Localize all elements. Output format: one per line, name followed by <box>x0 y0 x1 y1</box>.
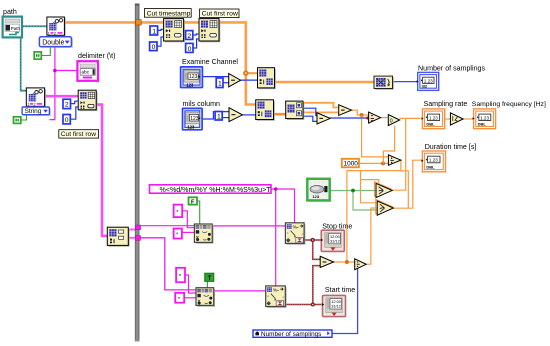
wire: I3 blue output 2 to S2 bottom input <box>303 116 317 121</box>
Index Array I4 <box>107 227 129 247</box>
flat sequence structure left border <box>135 4 140 342</box>
indicator Number of samplings (I32) <box>417 72 439 90</box>
wire: 1000 to E bottom input <box>359 162 389 164</box>
wire: const c4 to icon2 <box>184 297 196 299</box>
boolean constant \t (transpose) 1 <box>34 52 41 59</box>
VI U1: Read From Spreadsheet File (Double) <box>47 17 66 37</box>
wire: VI2 string 2D array to Delete From Array D3 <box>45 95 78 98</box>
indicator Sampling frequency (DBL) <box>473 109 496 129</box>
wire: const c2 to icon1 <box>182 231 195 233</box>
wire: const c1 to icon1 <box>182 211 194 228</box>
junction: dot on S1 output <box>360 113 364 117</box>
Get Date/Time In Seconds <box>307 179 331 202</box>
coercion dot T6 <box>355 266 358 269</box>
Scan From String icon3 (timestamp) <box>285 223 305 245</box>
wire: const 1b to S0b bottom <box>222 117 229 119</box>
svg-text:0: 0 <box>390 118 393 124</box>
wire: const c3 to icon2 <box>185 275 196 293</box>
svg-text:123: 123 <box>186 83 194 88</box>
wire: 2D DBL array from VI1 across sequence border to Delete From Array chain <box>64 22 255 104</box>
constant 1 (D1) <box>150 26 158 35</box>
svg-text:1: 1 <box>27 102 29 106</box>
junction: delimiter dot <box>53 69 57 73</box>
To Time Stamp G1 <box>375 182 393 198</box>
svg-text:Path: Path <box>11 26 21 31</box>
string constant c3 <box>176 268 185 282</box>
wire: D2 output to Sampling rate terminal <box>400 117 421 119</box>
svg-text:Start time: Start time <box>325 286 355 294</box>
wire: boolean \t 1 <box>41 47 50 55</box>
wire: tunnel1 to Scan icon1 row1 <box>140 225 194 227</box>
svg-text:T: T <box>208 276 212 282</box>
string constant c2 <box>174 229 182 239</box>
wire: segment Sampling rate to reciprocal <box>445 118 451 120</box>
wire: icon2 out to icon4 <box>214 290 266 292</box>
coercion dot S3 top <box>320 258 323 261</box>
wire: S1 output to divide D1 top <box>351 110 368 115</box>
To Time Stamp G2 <box>376 199 394 215</box>
svg-text:1.23: 1.23 <box>480 115 489 120</box>
wire: D1 output to D2 <box>380 117 388 119</box>
constant 2 (D3) <box>63 99 71 108</box>
junction: dark red dot 2 <box>311 303 315 307</box>
subtract S0 <box>229 74 241 87</box>
junction: green dot <box>351 189 355 193</box>
wire const2 to D3 <box>71 101 79 103</box>
svg-text:123: 123 <box>190 116 199 122</box>
svg-text:Cut timestamp: Cut timestamp <box>147 10 191 17</box>
label Cut timestamp <box>144 9 191 18</box>
svg-text:mils column: mils column <box>183 100 221 108</box>
dropdown String <box>22 107 51 116</box>
path control <box>3 17 22 38</box>
delimiter string control <box>77 61 98 81</box>
Array Size <box>374 76 394 90</box>
wire: local variable to T6 bottom input <box>332 267 358 334</box>
boolean constant T <box>205 273 214 282</box>
wire: tunnel2 right, down, to Scan icon2 <box>140 238 196 290</box>
tunnel: string tunnel 1 <box>136 225 141 230</box>
wire const2 to D2 <box>193 34 199 35</box>
svg-text:1.23: 1.23 <box>429 158 438 163</box>
wire: delimiter string net <box>49 47 55 120</box>
wire: S2 output to divide D1 bottom <box>330 117 369 119</box>
svg-text:Duration time [s]: Duration time [s] <box>425 143 477 151</box>
svg-text:0: 0 <box>65 117 69 124</box>
svg-text:DBL: DBL <box>478 121 487 126</box>
wire: riser from junction down to E top input <box>362 115 389 157</box>
svg-text:1.23: 1.23 <box>429 115 438 120</box>
junction dot on S3 output <box>345 260 349 264</box>
wire const0 to D1 <box>157 37 164 46</box>
string constant c1 <box>174 205 183 218</box>
VI U2: Read From Spreadsheet File (String) <box>26 88 46 108</box>
wire: icon1 remaining-string out to icon3 <box>212 225 285 227</box>
label Cut first row (top) <box>200 9 239 18</box>
tunnel: string tunnel 2 <box>136 236 141 241</box>
indicator Sampling rate (DBL) <box>421 109 444 129</box>
wire: D3 output down to Index Array I4 <box>96 105 107 236</box>
wire: Examine Channel to subtract S0 <box>202 76 228 78</box>
svg-text:F: F <box>191 199 195 205</box>
wire: get date/time output to G1 and G2 <box>330 190 376 192</box>
wire: Array Size to Number of samplings terminal <box>393 81 418 83</box>
Delete From Array D2 (cut first row) <box>199 19 220 43</box>
coercion dot D1 <box>367 117 370 120</box>
svg-text:Sampling rate: Sampling rate <box>424 100 468 108</box>
wire: I3 blue output to S2 top input <box>303 108 317 115</box>
Scan From String icon4 (timestamp) <box>266 286 287 308</box>
wire: path wire from path control to Read Spreadsheet VI (Double) <box>23 25 47 27</box>
constant 0 (D3) <box>63 115 70 124</box>
Spreadsheet String To Array icon1 <box>194 224 213 244</box>
wire: format string net <box>271 189 295 223</box>
svg-text:path: path <box>3 8 17 16</box>
subtract S3 <box>320 256 333 267</box>
svg-text:delimiter (\t): delimiter (\t) <box>78 52 115 60</box>
wire: I3 top output to S1 top input <box>303 103 339 108</box>
svg-text:2: 2 <box>34 102 36 106</box>
svg-text:31/12: 31/12 <box>331 304 341 309</box>
divide D1 <box>369 112 381 123</box>
wire: G2 output riser to Duration terminal <box>393 160 422 208</box>
wire: timestamp from icon4 to Start time and S3 bottom <box>286 304 322 306</box>
wire: riser 1000 to D2 bottom <box>383 126 394 164</box>
svg-text:Double: Double <box>42 39 64 46</box>
label Cut first row (bottom) <box>59 130 99 139</box>
junction: format dot <box>274 187 278 191</box>
svg-text:abc: abc <box>81 70 89 76</box>
wire: mils column to subtract S0b <box>202 112 229 119</box>
svg-text:1: 1 <box>218 81 222 88</box>
svg-text:Stop time: Stop time <box>322 222 352 230</box>
junction dot on 1000 wire <box>381 161 385 165</box>
svg-text:Examine Channel: Examine Channel <box>182 58 238 66</box>
dropdown Double <box>39 37 73 48</box>
constant 1 (mils) <box>215 112 222 121</box>
format string constant <box>150 185 272 194</box>
constant 2 (D2) <box>186 31 193 40</box>
junction: orange branch dot <box>243 71 248 76</box>
indicator Stop time (timestamp) <box>321 230 345 251</box>
subtract S1 <box>339 105 352 116</box>
svg-text:Cut first row: Cut first row <box>61 131 96 138</box>
wire: timestamp from icon3 to Stop time and S3 <box>304 239 321 241</box>
divide E <box>388 155 400 165</box>
wire: T6 output up into G2 mid input <box>366 208 377 264</box>
Delete From Array D3 <box>78 90 97 111</box>
indicator Start time (timestamp) <box>322 295 346 316</box>
svg-text:123: 123 <box>187 124 195 129</box>
indicator Duration time (DBL) <box>421 151 445 172</box>
svg-text:String: String <box>25 108 42 115</box>
constant 1000 <box>342 159 359 168</box>
svg-text:31/12: 31/12 <box>330 238 340 243</box>
string constant c4 <box>175 293 184 303</box>
wire: reciprocal out to Sampling frequency terminal <box>463 118 474 120</box>
boolean constant F <box>189 197 198 205</box>
wire: E output down to band <box>400 160 408 208</box>
control mils column <box>183 108 203 129</box>
svg-text:DBL: DBL <box>426 121 435 126</box>
svg-text:2: 2 <box>65 102 69 109</box>
junction: dark red dot <box>311 238 315 242</box>
Delete From Array D1 (cut timestamp) <box>164 19 185 43</box>
Index Array I2 <box>256 100 275 121</box>
local variable Number of samplings <box>253 330 332 338</box>
svg-text:123: 123 <box>189 74 198 80</box>
wire: branch feeds G1 top and G2 top inputs <box>361 171 377 203</box>
svg-text:Cut first row: Cut first row <box>202 11 238 18</box>
svg-text:1: 1 <box>152 28 156 35</box>
wire: boolean T to icon2 top <box>206 281 208 287</box>
svg-text:Number of samplings: Number of samplings <box>418 65 485 73</box>
reciprocal 1/x <box>450 113 463 125</box>
svg-text:2: 2 <box>54 31 56 35</box>
control Examine Channel <box>181 67 203 88</box>
svg-text:1.23: 1.23 <box>424 78 433 83</box>
wire const0 to D2 <box>193 39 199 48</box>
Spreadsheet String To Array icon2 <box>196 288 215 307</box>
wire: I1 output 1D array to Array Size <box>274 81 374 83</box>
wire: boolean \t 2 <box>21 115 26 120</box>
wire const0 to D3 <box>70 107 78 119</box>
svg-text:0: 0 <box>188 46 192 53</box>
wire: boolean F to icon1 top <box>197 201 200 224</box>
wire: horizontal band from S3 riser <box>347 170 401 172</box>
divide T6 <box>355 259 367 270</box>
svg-text:I32: I32 <box>422 84 428 89</box>
svg-text:2: 2 <box>187 33 191 40</box>
wire: path branch down to Read Spreadsheet VI (String) <box>21 38 27 91</box>
wire: I3 second output to S1 bottom input <box>303 111 339 113</box>
wire: I2 to Decimate I3 <box>274 113 286 116</box>
svg-text:123: 123 <box>312 194 319 199</box>
svg-text:%<%d/%m/%Y %H:%M:%S%3u>T: %<%d/%m/%Y %H:%M:%S%3u>T <box>160 186 272 194</box>
wire: I4 outputs to tunnels <box>128 229 136 231</box>
constant 1 (EC) <box>216 78 223 88</box>
constant 0 (D1) <box>150 42 157 51</box>
convert D2 <box>388 115 399 126</box>
wire const1 to D1 <box>158 29 164 30</box>
wire: S0b output to I2 <box>242 114 255 116</box>
Index Array I1 <box>258 68 276 90</box>
svg-text:1: 1 <box>217 114 221 121</box>
boolean constant \t (transpose) 2 <box>14 117 21 124</box>
Decimate 1D Array I3 <box>286 101 305 120</box>
wire: S0 output to I1 <box>240 79 257 81</box>
svg-text:1000: 1000 <box>344 161 359 168</box>
wire: branch stub to Index Array I1 <box>246 72 258 74</box>
wire: S3 output to T6 top input <box>333 261 354 263</box>
svg-text:Sampling frequency [Hz]: Sampling frequency [Hz] <box>472 101 546 108</box>
svg-text:DBL: DBL <box>426 164 435 169</box>
subtract S2 <box>317 113 330 124</box>
svg-text:0: 0 <box>152 44 156 51</box>
constant 0 (D2) <box>186 43 193 52</box>
wire: const 1 to S0 bottom <box>222 82 228 84</box>
tunnel: orange 2D array tunnel <box>136 20 142 25</box>
svg-text:Number of samplings: Number of samplings <box>261 331 321 338</box>
svg-text:1: 1 <box>48 31 50 35</box>
wire: G1 output riser to sampling-rate row <box>392 118 406 190</box>
subtract S0b <box>229 108 243 122</box>
